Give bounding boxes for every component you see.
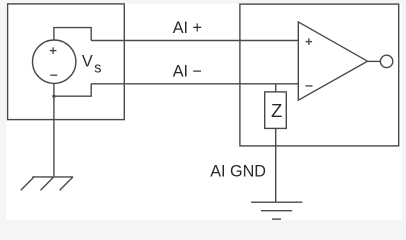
wire step from bottom node to AI- line — [54, 84, 91, 96]
wire AI- — [91, 83, 298, 85]
op-amp output terminal circle — [380, 55, 392, 67]
voltage source Vs — [33, 40, 76, 83]
label Vs — [82, 53, 102, 77]
signal source enclosure box — [8, 4, 125, 120]
wire from Z to earth ground — [275, 128, 277, 202]
measurement device enclosure box — [240, 4, 399, 146]
impedance Z — [265, 92, 287, 128]
svg-text:AI −: AI − — [173, 63, 202, 81]
svg-text:AI +: AI + — [173, 19, 202, 37]
svg-text:AI GND: AI GND — [210, 163, 266, 181]
svg-text:V: V — [82, 53, 93, 71]
wire from AI- to impedance Z — [275, 84, 277, 92]
svg-text:Z: Z — [271, 100, 282, 121]
earth ground — [251, 202, 302, 219]
wire AI+ — [91, 40, 298, 42]
node junction at source bottom — [52, 95, 55, 98]
op-amp U1 — [298, 22, 367, 100]
wire from source bottom terminal down to chassis ground — [53, 83, 55, 176]
op-amp output wire — [368, 60, 381, 62]
wire from source top terminal to AI+ line (step) — [54, 28, 91, 41]
svg-text:s: s — [94, 60, 101, 76]
chassis ground — [21, 177, 73, 190]
